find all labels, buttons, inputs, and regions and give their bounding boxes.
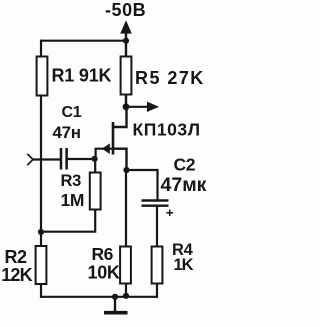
svg-text:10K: 10K: [88, 262, 120, 282]
input terminal chevron: [27, 154, 33, 165]
svg-text:R5 27K: R5 27K: [135, 68, 205, 88]
wire: input to C1: [33, 158, 61, 160]
svg-text:1М: 1М: [61, 190, 85, 210]
wire: ground rail: [40, 296, 158, 298]
wire: R5 top lead: [125, 41, 127, 58]
wire: gate node down to R3: [94, 159, 96, 174]
wire: R5 bottom to drain node: [125, 94, 127, 107]
ground symbol: [104, 297, 128, 313]
wire: R1 top lead: [40, 40, 42, 58]
svg-text:КП103Л: КП103Л: [133, 120, 201, 140]
output arrow: [126, 102, 159, 112]
wire: source node to C2: [127, 170, 158, 200]
polarity plus sign of C2: [166, 210, 173, 217]
svg-text:R1 91K: R1 91K: [52, 66, 112, 86]
resistor R4: [152, 247, 163, 284]
wire: R2 bottom to ground rail: [40, 284, 42, 298]
node: gate junction dot: [92, 156, 98, 162]
wire: R4 bottom to ground rail: [156, 284, 158, 298]
wire: divider node to R2: [40, 232, 42, 247]
capacitor C1: [61, 148, 67, 170]
node: ground junction dot: [112, 294, 118, 300]
resistor R5: [121, 57, 132, 95]
transistor VT1 КП103Л : drain lead: [113, 107, 127, 127]
node: top rail junction dot: [123, 38, 129, 44]
wire: top rail: [40, 40, 126, 42]
resistor R3: [90, 173, 101, 210]
wire: C2 bottom to R4: [156, 206, 158, 247]
transistor VT1 : channel: [112, 122, 115, 155]
node: source junction dot: [123, 167, 129, 173]
svg-text:47мк: 47мк: [161, 174, 207, 196]
svg-text:-50В: -50В: [105, 0, 146, 20]
resistor R2: [36, 246, 47, 284]
wire: source node down to R6: [125, 170, 127, 247]
svg-text:47н: 47н: [53, 123, 81, 142]
wire: R1 bottom down to divider node: [40, 95, 42, 232]
resistor R1: [37, 57, 48, 96]
svg-text:C2: C2: [174, 155, 196, 175]
transistor VT1 : gate lead: [96, 149, 113, 159]
node: R6/rail junction dot: [123, 293, 129, 299]
wire: R3 bottom to divider node: [41, 210, 95, 232]
capacitor C2 (electrolytic): [142, 201, 169, 206]
svg-text:1K: 1K: [174, 256, 194, 274]
node: divider junction dot: [38, 229, 44, 235]
wire: R6 bottom to ground rail: [125, 284, 127, 298]
svg-text:C1: C1: [62, 104, 82, 121]
transistor VT1 : source lead: [113, 149, 127, 170]
node: drain/output junction dot: [123, 103, 130, 110]
resistor R6: [120, 247, 131, 284]
svg-text:R6: R6: [92, 244, 114, 264]
svg-text:12K: 12K: [1, 265, 32, 285]
wire: C1 to gate node: [68, 158, 96, 160]
power arrow (-50V supply): [120, 20, 132, 40]
svg-text:R2: R2: [5, 247, 27, 267]
transistor VT1 : gate arrow (p-channel): [102, 143, 110, 154]
svg-text:R3: R3: [61, 172, 82, 190]
